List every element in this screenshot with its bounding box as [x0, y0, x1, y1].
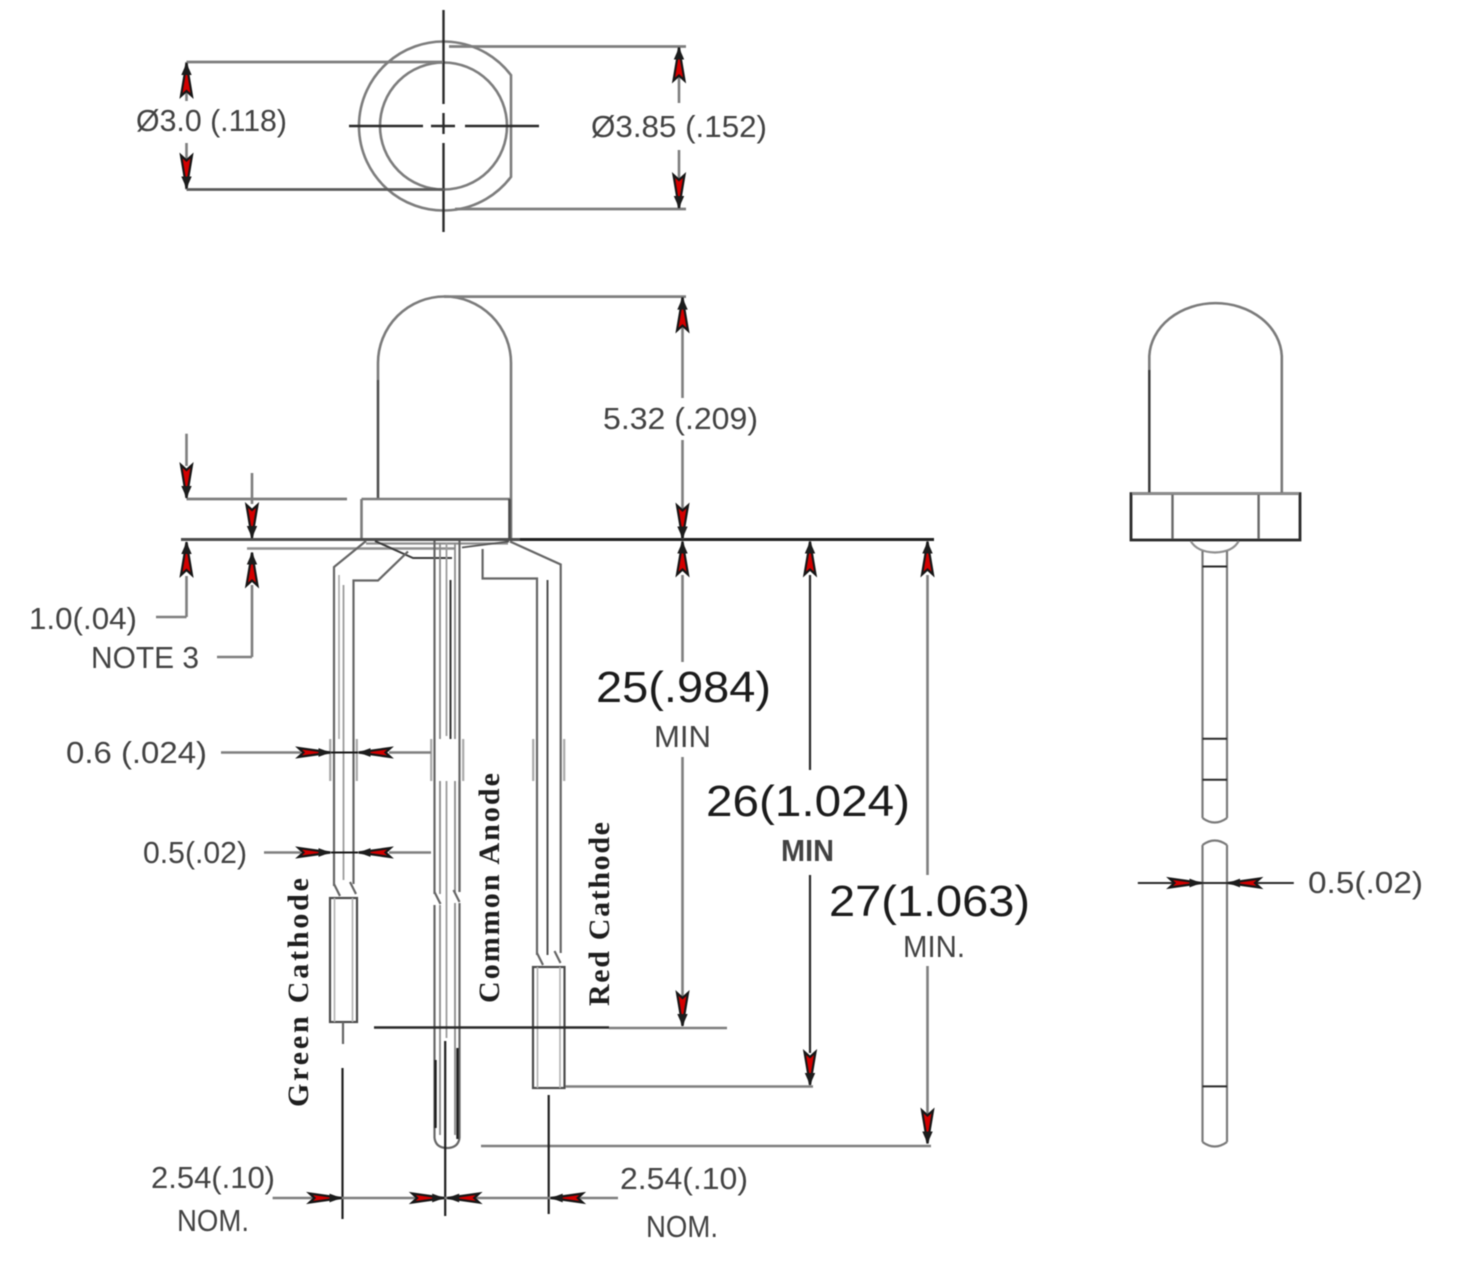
- epoxy bottom line: [366, 542, 508, 544]
- arrow down 26: [805, 1052, 816, 1085]
- red cathode lead bend: [483, 542, 561, 956]
- flange right edge dark: [508, 499, 511, 539]
- arrow down 1.0: [181, 465, 192, 498]
- leader 0.6: [221, 751, 301, 754]
- arrow up 26: [805, 542, 816, 575]
- ext line 27: [481, 1145, 931, 1148]
- green cathode lead tab: [330, 575, 357, 880]
- leader 0.5: [264, 851, 301, 854]
- dim line note 3: [251, 473, 254, 657]
- arrow right at center ext: [412, 1194, 444, 1203]
- arrow left 0.5: [359, 848, 391, 857]
- seating plane datum line right part: [520, 538, 934, 541]
- arrow down 5.32: [677, 506, 688, 539]
- meniscus left diagonal: [375, 541, 452, 558]
- ext line flange top left: [187, 498, 348, 501]
- side view meniscus: [1191, 541, 1239, 553]
- standoff line under package: [247, 547, 455, 549]
- svg-text:MIN: MIN: [654, 719, 711, 754]
- leader 0.5 right: [389, 851, 431, 854]
- side view lead break lines: [1203, 738, 1228, 740]
- seating plane datum line left part: [181, 538, 520, 541]
- arrow right 0.6: [299, 748, 331, 757]
- leader 1.0: [156, 616, 187, 619]
- svg-text:Ø3.0 (.118): Ø3.0 (.118): [136, 103, 287, 138]
- svg-text:1.0(.04): 1.0(.04): [29, 601, 137, 636]
- leader note 3: [217, 656, 252, 659]
- svg-text:Red Cathode: Red Cathode: [583, 822, 616, 1006]
- svg-text:26(1.024): 26(1.024): [706, 777, 910, 826]
- arrow up 3.0: [181, 63, 192, 96]
- dim extension lines for 3.0 diameter: [187, 62, 446, 190]
- svg-text:Green Cathode: Green Cathode: [282, 878, 315, 1107]
- svg-text:2.54(.10): 2.54(.10): [151, 1160, 275, 1195]
- svg-text:25(.984): 25(.984): [596, 663, 771, 712]
- dim line 2.54: [273, 1197, 618, 1200]
- leader 0.6 right: [389, 751, 431, 754]
- svg-text:0.6 (.024): 0.6 (.024): [66, 735, 207, 770]
- side view lead tick: [1203, 566, 1228, 568]
- arrow down 3.85: [674, 175, 685, 208]
- arrow up 3.85: [674, 48, 685, 81]
- svg-text:Common Anode: Common Anode: [473, 773, 506, 1003]
- red cathode lead tab: [533, 739, 564, 781]
- svg-text:NOTE 3: NOTE 3: [91, 640, 199, 675]
- ext line right lead: [548, 1095, 550, 1214]
- svg-text:0.5(.02): 0.5(.02): [1308, 865, 1423, 900]
- arrow up 1.0: [181, 542, 192, 575]
- arrow left 0.6: [359, 748, 391, 757]
- ext line dome top: [444, 295, 686, 298]
- common anode inner dark lines: [450, 580, 452, 739]
- arrow down 27: [922, 1111, 933, 1144]
- side view dome: [1149, 303, 1282, 493]
- svg-text:2.54(.10): 2.54(.10): [620, 1161, 748, 1196]
- arrow right 0.5: [299, 848, 331, 857]
- arrow left at right ext: [551, 1194, 583, 1203]
- flange front view: [362, 499, 512, 539]
- svg-text:27(1.063): 27(1.063): [829, 877, 1030, 926]
- side view flange: [1131, 494, 1300, 540]
- side view dome left edge dark: [1148, 370, 1150, 493]
- side view lead upper segment: [1203, 551, 1228, 823]
- horizontal centerline: [349, 125, 539, 127]
- svg-text:0.5(.02): 0.5(.02): [143, 835, 247, 870]
- ext line 26: [566, 1085, 813, 1088]
- cross line 0.6: [331, 752, 358, 754]
- svg-text:NOM.: NOM.: [646, 1209, 718, 1244]
- meniscus right diagonal: [462, 542, 509, 548]
- arrow left 0.5 side: [1228, 879, 1260, 888]
- dim line 0.5 side: [1138, 882, 1294, 884]
- dim line 26: [809, 575, 811, 1053]
- green cathode lead lower: [330, 882, 357, 1044]
- svg-text:MIN.: MIN.: [903, 929, 965, 964]
- ext line 25: [374, 1026, 609, 1028]
- svg-text:5.32 (.209): 5.32 (.209): [603, 401, 758, 436]
- arrow down 25: [677, 993, 688, 1026]
- svg-text:NOM.: NOM.: [177, 1203, 249, 1238]
- dim line 5.32: [681, 297, 684, 539]
- arrow up 25: [677, 542, 688, 575]
- green cathode lead bend: [334, 541, 408, 886]
- arrow right at left ext: [310, 1194, 342, 1203]
- red cathode lead lower: [533, 951, 565, 1088]
- ext line center lead: [444, 1041, 446, 1216]
- arrow up note 3: [247, 553, 258, 586]
- ext line left lead: [341, 1068, 343, 1219]
- vertical centerline: [442, 10, 444, 232]
- lens circle top view (inner circle): [380, 63, 507, 190]
- red cathode inner dark line: [547, 580, 549, 955]
- arrow up 5.32: [677, 298, 688, 331]
- side view lead lower break: [1203, 1085, 1228, 1087]
- arrow down note 3: [247, 505, 258, 538]
- arrow up 27: [922, 542, 933, 575]
- side view lead lower segment: [1203, 841, 1228, 1147]
- dim line 27: [926, 575, 929, 1115]
- side view flange chamfer lines: [1173, 495, 1259, 539]
- dim line 25: [681, 575, 684, 997]
- dim line 3.85 diameter: [678, 47, 681, 210]
- dim line 1.0: [185, 434, 188, 617]
- dome left edge dark segment: [377, 380, 379, 499]
- common anode lead: [431, 541, 463, 1148]
- flange outline top view (outer circle with flat): [359, 42, 511, 211]
- arrow right 0.5 side: [1170, 879, 1202, 888]
- dim line 3.0 diameter: [185, 62, 188, 190]
- arrow left at center ext: [447, 1194, 479, 1203]
- svg-text:Ø3.85 (.152): Ø3.85 (.152): [591, 109, 767, 144]
- side view flange top edge grey: [1132, 492, 1299, 495]
- cross line 0.5: [331, 852, 358, 854]
- arrow down 3.0: [181, 156, 192, 189]
- epoxy dome front view: [378, 297, 511, 540]
- dim extension lines for 3.85 diameter: [449, 47, 686, 210]
- svg-text:MIN: MIN: [781, 833, 834, 868]
